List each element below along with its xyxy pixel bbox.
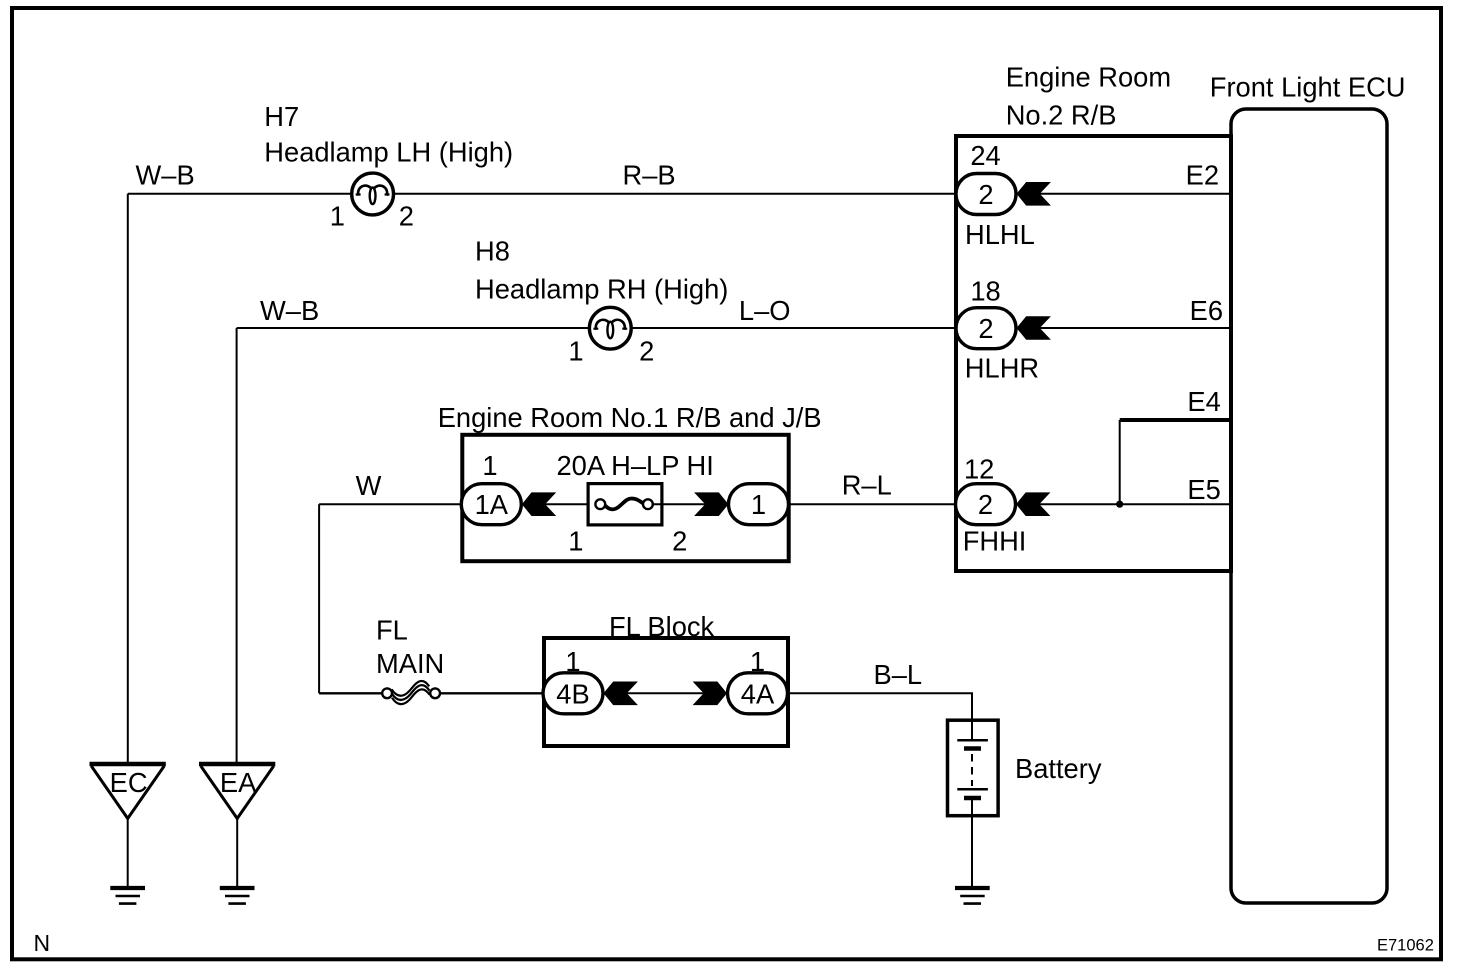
connector 24 pin 2 HLHL oval — [956, 174, 1016, 215]
svg-text:1: 1 — [750, 646, 765, 677]
svg-text:R–B: R–B — [623, 160, 676, 191]
svg-text:FL: FL — [376, 615, 408, 646]
svg-text:No.2 R/B: No.2 R/B — [1006, 99, 1117, 130]
svg-text:Engine Room: Engine Room — [1006, 62, 1171, 93]
ground symbol EA — [220, 888, 255, 904]
wire W to 1A — [319, 503, 461, 505]
svg-text:FHHI: FHHI — [963, 526, 1027, 557]
svg-text:2: 2 — [639, 335, 654, 366]
connector 4B oval — [543, 673, 603, 714]
svg-text:18: 18 — [970, 276, 1000, 307]
arrow into 4B — [604, 682, 638, 706]
svg-text:H7: H7 — [264, 101, 299, 132]
svg-text:2: 2 — [978, 313, 993, 344]
ECU U1 Front Light ECU box — [1231, 109, 1387, 903]
arrow into 1A — [522, 492, 556, 516]
svg-text:R–L: R–L — [842, 470, 892, 501]
svg-text:L–O: L–O — [739, 295, 791, 326]
svg-text:W–B: W–B — [260, 295, 319, 326]
svg-text:E5: E5 — [1187, 474, 1220, 505]
svg-text:EC: EC — [110, 767, 148, 798]
svg-text:HLHL: HLHL — [965, 219, 1035, 250]
svg-text:2: 2 — [399, 200, 414, 231]
svg-text:H8: H8 — [475, 235, 510, 266]
junction block Engine Room No.1 R/B and J/B box — [462, 435, 788, 561]
svg-text:1: 1 — [482, 450, 497, 481]
ground EC triangle — [90, 764, 166, 819]
wire E4 thick — [1120, 418, 1231, 422]
connector 12 pin 2 FHHI oval — [956, 484, 1016, 525]
arrow into HLHL — [1017, 182, 1051, 206]
ground symbol EC — [110, 888, 145, 904]
svg-text:N: N — [34, 930, 51, 956]
wire H7 lamp to connector HLHL — [393, 193, 956, 195]
svg-text:FL Block: FL Block — [609, 611, 715, 642]
wire FL MAIN to 4B — [440, 692, 544, 694]
wire W-B horizontal H7 row — [128, 193, 352, 195]
battery — [948, 720, 999, 818]
lamp H8 — [589, 307, 631, 349]
svg-text:E4: E4 — [1187, 386, 1220, 417]
wire 1A arrow to fuse — [541, 503, 600, 505]
fusible link FL MAIN — [382, 681, 440, 704]
wire W-B vertical to EC ground — [127, 194, 129, 762]
arrow into 4A — [693, 682, 727, 706]
svg-text:4A: 4A — [741, 678, 775, 709]
svg-text:1: 1 — [568, 526, 583, 557]
connector 4A oval — [728, 673, 788, 714]
svg-text:E2: E2 — [1186, 160, 1219, 191]
svg-text:MAIN: MAIN — [376, 648, 444, 679]
wire W-B horizontal H8 row — [237, 327, 590, 329]
wire fuse to arrow — [653, 503, 710, 505]
svg-text:HLHR: HLHR — [965, 352, 1039, 383]
svg-text:Headlamp RH (High): Headlamp RH (High) — [475, 274, 728, 305]
svg-text:1: 1 — [568, 335, 583, 366]
svg-text:2: 2 — [978, 179, 993, 210]
wire EA apex to ground — [236, 819, 238, 887]
wire W-B vertical to EA ground — [236, 328, 238, 762]
wire H8 lamp to connector HLHR — [631, 327, 956, 329]
arrow into FHHI — [1016, 492, 1050, 516]
svg-text:W–B: W–B — [136, 160, 195, 191]
wire E4 vertical — [1119, 420, 1121, 504]
svg-text:B–L: B–L — [874, 659, 923, 690]
relay block Engine Room No.2 R/B box — [956, 136, 1231, 571]
connector 18 pin 2 HLHR oval — [956, 308, 1016, 349]
svg-text:Headlamp LH (High): Headlamp LH (High) — [264, 136, 513, 167]
wire EC apex to ground — [127, 819, 129, 887]
svg-text:24: 24 — [970, 140, 1000, 171]
wire to FL MAIN — [319, 692, 382, 694]
wire battery to ground — [971, 818, 973, 886]
ground EA triangle — [199, 764, 275, 819]
wire E6 to arrow — [1036, 327, 1231, 329]
wire E2 to arrow — [1036, 193, 1231, 195]
fuse F1 20A H-LP HI — [588, 484, 662, 525]
svg-text:4B: 4B — [556, 678, 589, 709]
svg-text:Engine Room No.1 R/B and J/B: Engine Room No.1 R/B and J/B — [438, 402, 822, 433]
svg-text:EA: EA — [220, 767, 257, 798]
svg-text:2: 2 — [978, 489, 993, 520]
svg-text:1: 1 — [751, 489, 766, 520]
wire E5 to arrow — [1036, 503, 1231, 505]
arrow into HLHR — [1017, 316, 1051, 340]
connector 1 oval — [729, 484, 789, 525]
lamp H7 — [352, 173, 394, 215]
svg-text:20A H–LP HI: 20A H–LP HI — [557, 450, 714, 481]
svg-text:2: 2 — [672, 526, 687, 557]
svg-text:E6: E6 — [1190, 295, 1223, 326]
svg-text:Battery: Battery — [1015, 753, 1102, 784]
junction dot E4/E5 — [1116, 501, 1123, 508]
svg-text:W: W — [356, 470, 382, 501]
wire between 4B and 4A arrows — [625, 692, 705, 694]
fuse block FL Block box — [544, 638, 788, 746]
wire B-L — [788, 693, 973, 740]
connector 1A oval — [461, 484, 521, 525]
ground below battery — [955, 888, 990, 904]
svg-text:E71062: E71062 — [1377, 937, 1434, 955]
svg-text:1: 1 — [330, 200, 345, 231]
svg-text:Front Light ECU: Front Light ECU — [1210, 72, 1406, 103]
svg-text:1A: 1A — [475, 489, 509, 520]
wire R-L — [789, 503, 956, 505]
svg-text:12: 12 — [964, 453, 994, 484]
wire vertical W to FL MAIN — [318, 504, 320, 693]
svg-text:1: 1 — [565, 646, 580, 677]
arrow into connector 1 — [694, 492, 728, 516]
